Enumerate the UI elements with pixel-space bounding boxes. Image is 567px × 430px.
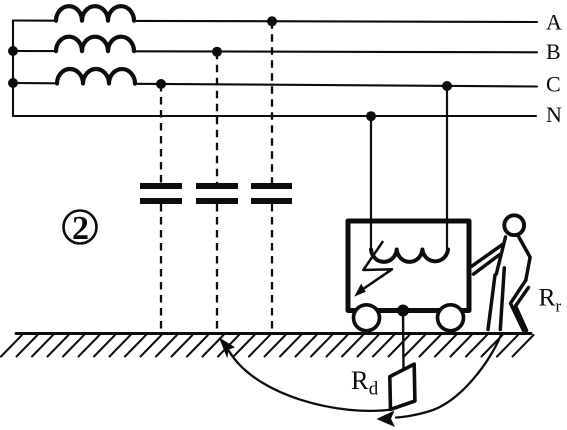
wire dashed capacitor 1 drop (from C) [160, 84, 162, 333]
node dot on C at capacitor 1 tap [156, 79, 166, 89]
wire dashed capacitor 2 drop (from B) [216, 52, 218, 333]
wheel left [354, 305, 380, 331]
wire neutral N conductor [13, 115, 536, 117]
wire cart feed from N [370, 116, 372, 249]
node dot on N at cart feed [366, 111, 376, 121]
wire dashed capacitor 3 drop (from A) [271, 21, 273, 333]
fault lightning arrow winding-to-frame [354, 242, 392, 297]
wire phase A conductor [13, 21, 537, 23]
svg-text:N: N [546, 102, 562, 127]
inductor winding phase A [56, 6, 134, 21]
wire grounding conductor to Rd [402, 311, 405, 370]
current path arrow from person feet to Rd [377, 335, 502, 427]
inductor winding phase B [56, 37, 134, 52]
node bus-C junction [8, 78, 18, 88]
motor winding inside cart [371, 250, 448, 262]
person head [504, 215, 524, 235]
inductor winding phase C [57, 69, 135, 84]
node dot on B at capacitor 2 tap [212, 47, 222, 57]
node dot on C at cart feed [442, 81, 452, 91]
capacitor 1 plates [140, 183, 182, 204]
wire cart feed from C [446, 86, 448, 250]
ground hatching [1, 335, 534, 357]
person legs [488, 268, 529, 331]
capacitor 2 plates [196, 183, 238, 204]
person torso and arms [472, 236, 530, 281]
svg-text:Rd: Rd [351, 365, 379, 400]
ground surface line [16, 332, 531, 335]
svg-text:2: 2 [72, 210, 89, 247]
node dot on A at capacitor 3 tap [267, 16, 277, 26]
resistor Rd grounding electrode plate [390, 364, 415, 409]
svg-text:C: C [546, 72, 561, 97]
wire phase B conductor [13, 51, 537, 52]
label circled 2 [64, 210, 97, 247]
wire phase C conductor [13, 83, 537, 87]
node bus-B junction [8, 46, 18, 56]
capacitor 3 plates [251, 183, 292, 204]
cart frame box [348, 221, 469, 311]
node dot cart frame ground tap [397, 305, 409, 317]
wheel right [438, 305, 464, 331]
wire star-point bus (left vertical) [12, 21, 14, 117]
svg-text:A: A [546, 10, 562, 35]
svg-text:Rr: Rr [539, 283, 562, 316]
svg-text:B: B [546, 39, 561, 64]
current path arrow from Rd to capacitor grounds [219, 337, 392, 411]
